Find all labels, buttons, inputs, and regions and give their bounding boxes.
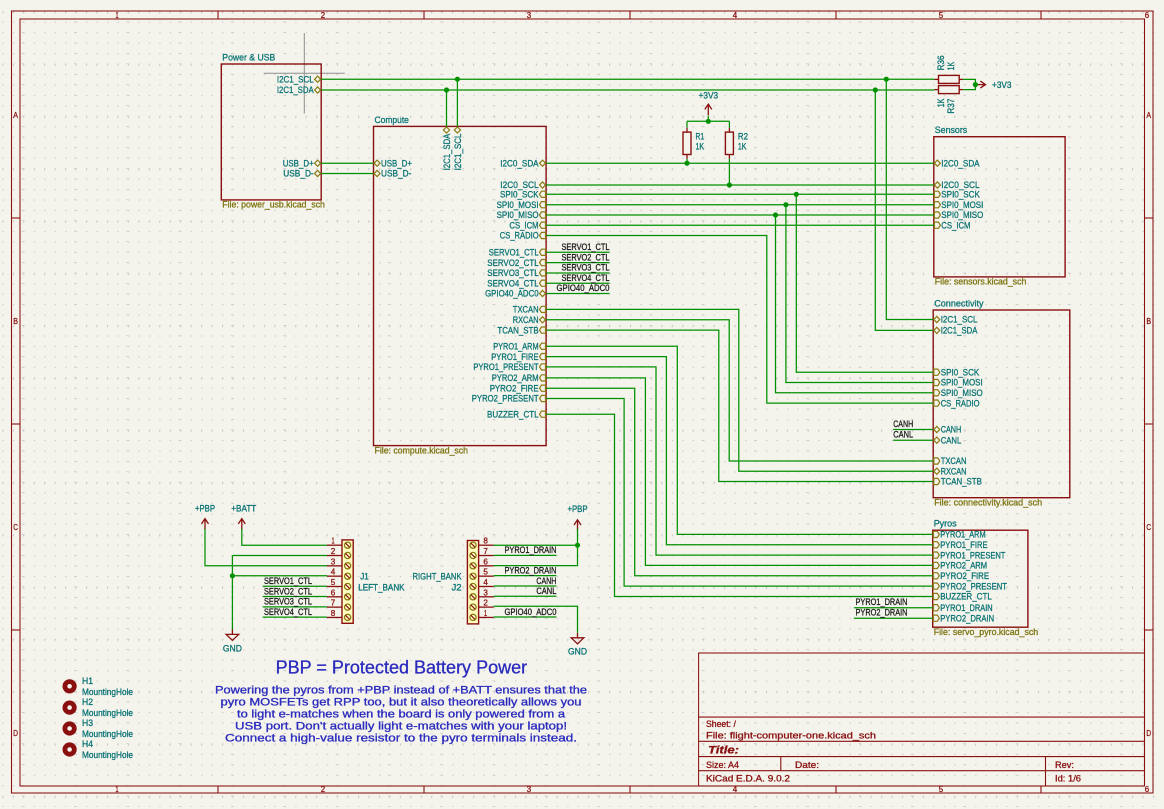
svg-text:PYRO1_FIRE: PYRO1_FIRE — [491, 352, 538, 362]
wire CANH stub at J2 — [494, 585, 557, 587]
svg-text:B: B — [1146, 316, 1151, 326]
sheet pin SPI0_SCK — [500, 190, 546, 200]
sheet pin USB_D- — [283, 169, 320, 179]
wire SPI0_SCK — [546, 193, 934, 195]
svg-text:3: 3 — [527, 10, 532, 20]
svg-text:1: 1 — [331, 536, 334, 546]
svg-text:Title:: Title: — [708, 745, 739, 757]
svg-text:SERVO2_CTL: SERVO2_CTL — [264, 586, 312, 596]
junction GND at J1 pin4 — [230, 573, 235, 578]
wire SERVO3_CTL stub at J1 — [263, 606, 327, 608]
svg-text:CANL: CANL — [941, 435, 962, 445]
ground GND J1 — [226, 630, 239, 641]
junction I2C1_SDA at compute drop — [444, 87, 449, 92]
svg-text:CS_RADIO: CS_RADIO — [500, 231, 539, 241]
svg-text:SPI0_MISO: SPI0_MISO — [941, 210, 983, 220]
sheet Connectivity — [933, 298, 1070, 508]
power symbol PWR03 +PBP — [202, 519, 209, 530]
svg-text:R1: R1 — [696, 132, 705, 142]
junction +3V3 at top bar — [706, 119, 711, 124]
sheet Power & USB — [221, 52, 325, 210]
svg-text:SPI0_MISO: SPI0_MISO — [941, 388, 983, 398]
svg-text:CS_ICM: CS_ICM — [941, 220, 970, 230]
svg-text:USB port. Don't actually light: USB port. Don't actually light e-matches… — [235, 720, 567, 732]
svg-text:Connect a high-value resistor: Connect a high-value resistor to the pyr… — [225, 732, 577, 744]
wire I2C1_SDA bus — [321, 89, 934, 91]
svg-text:SPI0_MOSI: SPI0_MOSI — [941, 378, 983, 388]
svg-text:SPI0_MISO: SPI0_MISO — [497, 210, 539, 220]
svg-text:1K: 1K — [738, 142, 747, 152]
svg-text:CS_RADIO: CS_RADIO — [941, 398, 980, 408]
sheet pin TCAN_STB — [497, 325, 545, 335]
svg-text:R36: R36 — [936, 55, 946, 70]
sheet pin SPI0_SCK — [934, 190, 980, 200]
wire SERVO1_CTL stub — [546, 251, 609, 253]
svg-text:PYRO2_ARM: PYRO2_ARM — [492, 373, 539, 383]
svg-text:2: 2 — [321, 784, 326, 794]
svg-text:PYRO1_DRAIN: PYRO1_DRAIN — [856, 597, 908, 607]
sheet pin SERVO3_CTL — [487, 268, 545, 278]
mounting hole H1 — [65, 676, 133, 697]
mounting hole H4 — [65, 739, 133, 760]
svg-text:J1: J1 — [360, 572, 369, 582]
wire GPIO40_ADC0 stub at J2 — [494, 616, 557, 618]
svg-text:PYRO1_PRESENT: PYRO1_PRESENT — [940, 550, 1005, 560]
wire SERVO2_CTL stub at J1 — [263, 596, 327, 598]
svg-text:1K: 1K — [696, 142, 705, 152]
svg-text:File: power_usb.kicad_sch: File: power_usb.kicad_sch — [222, 200, 325, 210]
wire I2C1_SCL drop to Compute — [456, 79, 458, 126]
svg-text:Compute: Compute — [375, 114, 409, 125]
sheet pin USB_D+ — [374, 158, 412, 168]
svg-text:USB_D-: USB_D- — [283, 169, 313, 179]
sheet pin CANL — [934, 435, 962, 445]
wire I2C0_SDA — [546, 162, 934, 164]
svg-text:CS_ICM: CS_ICM — [509, 220, 538, 230]
sheet pin PYRO1_ARM — [933, 530, 985, 540]
sheet pin I2C1_SCL — [277, 74, 321, 84]
wire PYRO2_FIRE — [546, 388, 933, 576]
wire USB_D+ — [321, 162, 373, 164]
svg-text:to light e-matches when the bo: to light e-matches when the board is onl… — [237, 708, 565, 720]
wire R36 R37 to +3V3 — [963, 79, 975, 89]
wire SPI0_MISO to Connectivity — [776, 215, 934, 393]
svg-text:PYRO2_DRAIN: PYRO2_DRAIN — [856, 608, 908, 618]
svg-text:TXCAN: TXCAN — [513, 305, 539, 315]
sheet pin USB_D- — [374, 169, 411, 179]
svg-text:MountingHole: MountingHole — [82, 729, 133, 739]
wire SERVO4_CTL stub — [546, 282, 609, 284]
sheet pin GPIO40_ADC0 — [485, 289, 545, 299]
wire CANL stub at J2 — [494, 595, 557, 597]
svg-text:SERVO1_CTL: SERVO1_CTL — [489, 248, 539, 258]
svg-text:SPI0_SCK: SPI0_SCK — [500, 190, 539, 200]
svg-text:1: 1 — [484, 608, 487, 618]
wire GPIO40_ADC0 stub — [546, 293, 609, 295]
svg-text:1K: 1K — [946, 61, 956, 70]
svg-text:CANH: CANH — [941, 425, 962, 435]
resistor R37 — [935, 86, 964, 114]
svg-text:SPI0_SCK: SPI0_SCK — [941, 190, 980, 200]
svg-text:6: 6 — [1145, 10, 1150, 20]
sheet pin PYRO1_PRESENT — [933, 550, 1005, 560]
svg-text:PBP = Protected Battery Power: PBP = Protected Battery Power — [276, 657, 528, 678]
svg-text:SERVO2_CTL: SERVO2_CTL — [487, 258, 538, 268]
sheet pin SPI0_MOSI — [497, 200, 546, 210]
svg-text:File: sensors.kicad_sch: File: sensors.kicad_sch — [935, 277, 1027, 287]
svg-text:D: D — [13, 728, 18, 738]
wire SPI0_SCK to Connectivity — [796, 194, 933, 372]
svg-text:RXCAN: RXCAN — [513, 315, 539, 325]
wire I2C1_SCL to Connectivity — [886, 79, 933, 319]
svg-text:B: B — [13, 316, 18, 326]
wire PYRO1_DRAIN stub at J2 — [494, 554, 557, 556]
wire R2 top — [728, 121, 730, 127]
junction I2C0_SCL at R2 — [727, 182, 732, 187]
sheet pin RXCAN — [934, 466, 967, 476]
mounting hole H2 — [65, 697, 133, 718]
svg-text:6: 6 — [1145, 784, 1150, 794]
title block — [699, 653, 1145, 786]
ground GND J2 — [571, 633, 584, 644]
svg-text:3: 3 — [331, 556, 336, 566]
svg-text:7: 7 — [331, 598, 336, 608]
sheet pin SPI0_SCK — [934, 367, 980, 377]
svg-text:PYRO2_DRAIN: PYRO2_DRAIN — [940, 613, 994, 623]
svg-text:5: 5 — [939, 10, 944, 20]
wire GND column J1 — [231, 556, 233, 630]
svg-text:RXCAN: RXCAN — [941, 466, 967, 476]
svg-text:SERVO1_CTL: SERVO1_CTL — [264, 576, 312, 586]
svg-text:CANL: CANL — [893, 430, 913, 440]
connector J1 LEFT_BANK — [327, 536, 353, 624]
svg-text:SERVO4_CTL: SERVO4_CTL — [562, 273, 610, 283]
svg-text:pyro MOSFETs get RPP too, but: pyro MOSFETs get RPP too, but it also th… — [221, 696, 582, 708]
sheet pin I2C1_SDA — [442, 127, 452, 170]
wire GND to J1 pin2 — [232, 555, 327, 557]
svg-text:I2C0_SDA: I2C0_SDA — [500, 158, 539, 168]
power symbol PWR05 +PBP — [574, 520, 581, 531]
sheet pin CS_RADIO — [934, 398, 980, 408]
junction SPI0_SCK drop — [794, 192, 799, 197]
svg-text:Sheet: /: Sheet: / — [706, 719, 736, 729]
svg-text:PYRO1_DRAIN: PYRO1_DRAIN — [505, 545, 557, 555]
svg-text:SPI0_SCK: SPI0_SCK — [941, 367, 980, 377]
wire BUZZER_CTL — [546, 414, 933, 596]
svg-text:CANL: CANL — [536, 586, 556, 596]
wire SERVO2_CTL stub — [546, 262, 609, 264]
power symbol PWR01 +3V3 — [705, 104, 712, 115]
svg-text:File: compute.kicad_sch: File: compute.kicad_sch — [375, 445, 469, 455]
svg-text:Power & USB: Power & USB — [222, 52, 275, 63]
svg-text:I2C0_SDA: I2C0_SDA — [941, 158, 980, 168]
svg-text:GPIO40_ADC0: GPIO40_ADC0 — [557, 283, 610, 293]
sheet pin CS_ICM — [934, 220, 970, 230]
svg-text:USB_D+: USB_D+ — [283, 158, 314, 168]
wire +PBP column J2 — [577, 529, 579, 566]
svg-text:GND: GND — [568, 647, 587, 657]
svg-text:A: A — [13, 110, 18, 120]
sheet Pyros — [933, 518, 1038, 637]
svg-text:+PBP: +PBP — [195, 504, 215, 514]
svg-text:H4: H4 — [82, 739, 93, 749]
svg-text:A: A — [1146, 110, 1151, 120]
svg-text:PYRO2_ARM: PYRO2_ARM — [940, 561, 987, 571]
svg-text:+PBP: +PBP — [568, 504, 588, 514]
svg-text:Powering the pyros from +PBP i: Powering the pyros from +PBP instead of … — [215, 685, 587, 697]
svg-text:I2C1_SCL: I2C1_SCL — [941, 315, 978, 325]
wire CS_ICM — [546, 224, 934, 226]
wire R2 bottom — [728, 159, 730, 185]
wire +BATT to J1 pin1 — [242, 529, 327, 546]
svg-text:MountingHole: MountingHole — [82, 687, 133, 697]
svg-text:H3: H3 — [82, 718, 93, 728]
sheet pin PYRO2_PRESENT — [933, 581, 1007, 591]
wire PYRO1_FIRE — [546, 357, 933, 545]
wire I2C1_SDA drop to Compute — [446, 90, 448, 126]
wire I2C1_SCL bus — [321, 78, 934, 80]
resistor R1 — [683, 128, 705, 159]
svg-text:H2: H2 — [82, 697, 93, 707]
svg-text:I2C1_SDA: I2C1_SDA — [442, 133, 452, 170]
power symbol PWR04 +BATT — [238, 519, 245, 530]
resistor R36 — [935, 55, 964, 83]
wire R1 top — [686, 121, 688, 127]
mounting hole H3 — [65, 718, 133, 739]
sheet pin PYRO2_ARM — [933, 561, 987, 571]
sheet pin SERVO2_CTL — [487, 258, 545, 268]
svg-text:J2: J2 — [452, 582, 462, 592]
sheet pin I2C1_SCL — [934, 315, 978, 325]
wire SERVO1_CTL stub at J1 — [263, 585, 327, 587]
sheet pin CS_ICM — [509, 220, 545, 230]
wire PYRO1_ARM — [546, 346, 933, 534]
wire USB_D- — [321, 173, 373, 175]
svg-text:PYRO1_ARM: PYRO1_ARM — [493, 342, 538, 352]
svg-text:USB_D+: USB_D+ — [381, 158, 412, 168]
svg-text:PYRO1_ARM: PYRO1_ARM — [940, 530, 985, 540]
wire R1-R2 top bar — [687, 120, 729, 122]
svg-text:4: 4 — [483, 577, 488, 587]
svg-text:+3V3: +3V3 — [699, 91, 719, 101]
svg-text:4: 4 — [733, 10, 738, 20]
svg-text:TXCAN: TXCAN — [941, 456, 967, 466]
junction SPI0_MOSI drop — [783, 202, 788, 207]
junction I2C1_SCL at compute drop — [455, 77, 460, 82]
svg-text:Size: A4: Size: A4 — [706, 760, 739, 770]
svg-text:2: 2 — [321, 10, 326, 20]
svg-text:SERVO4_CTL: SERVO4_CTL — [487, 278, 538, 288]
svg-text:1: 1 — [115, 784, 118, 794]
junction SPI0_MISO drop — [773, 212, 778, 217]
svg-text:GPIO40_ADC0: GPIO40_ADC0 — [485, 289, 539, 299]
sheet pin I2C0_SDA — [500, 158, 545, 168]
resistor R2 — [725, 128, 748, 159]
svg-text:GPIO40_ADC0: GPIO40_ADC0 — [505, 607, 557, 617]
svg-text:PYRO2_DRAIN: PYRO2_DRAIN — [505, 565, 557, 575]
sheet pin PYRO2_PRESENT — [472, 394, 546, 404]
svg-text:+3V3: +3V3 — [992, 80, 1012, 90]
wire CS_RADIO — [546, 236, 933, 404]
svg-text:SPI0_MOSI: SPI0_MOSI — [941, 200, 983, 210]
sheet pin PYRO1_FIRE — [491, 352, 545, 362]
wire R1 bottom — [686, 159, 688, 163]
svg-text:+BATT: +BATT — [231, 504, 256, 514]
wire TCAN_STB — [546, 330, 933, 481]
svg-text:KiCad E.D.A. 9.0.2: KiCad E.D.A. 9.0.2 — [706, 774, 790, 784]
svg-text:4: 4 — [331, 567, 336, 577]
svg-text:SERVO1_CTL: SERVO1_CTL — [562, 242, 610, 252]
wire RXCAN to TXCAN pin route — [546, 320, 933, 461]
wire SPI0_MISO — [546, 214, 934, 216]
sheet pin SPI0_MISO — [934, 388, 983, 398]
sheet pin I2C0_SCL — [934, 180, 979, 190]
wire PYRO2_PRESENT — [546, 399, 933, 587]
sheet pin SPI0_MISO — [497, 210, 546, 220]
wire CANH stub at Connectivity — [893, 429, 933, 431]
svg-text:SERVO2_CTL: SERVO2_CTL — [562, 252, 610, 262]
svg-text:MountingHole: MountingHole — [82, 750, 133, 760]
svg-text:PYRO1_FIRE: PYRO1_FIRE — [940, 540, 987, 550]
junction +3V3 tap — [973, 82, 978, 87]
svg-text:1K: 1K — [936, 98, 946, 107]
svg-text:PYRO2_FIRE: PYRO2_FIRE — [940, 571, 989, 581]
sheet pin SPI0_MOSI — [934, 378, 983, 388]
sheet pin PYRO2_ARM — [492, 373, 546, 383]
svg-text:I2C1_SCL: I2C1_SCL — [277, 74, 314, 84]
wire +PBP to J1 pin3 — [205, 529, 327, 566]
wire PYRO2_ARM — [546, 378, 933, 566]
crosshair cursor — [264, 33, 345, 114]
svg-text:8: 8 — [483, 536, 488, 546]
wire +PBP to J2 pin8 — [494, 544, 578, 546]
svg-text:Id: 1/6: Id: 1/6 — [1055, 774, 1081, 784]
svg-text:Pyros: Pyros — [934, 518, 957, 529]
wire I2C1_SDA to Connectivity — [875, 90, 933, 330]
svg-text:6: 6 — [331, 587, 336, 597]
wire GND J2 from pin2 — [494, 606, 578, 633]
sheet pin USB_D+ — [283, 158, 321, 168]
sheet pin TCAN_STB — [934, 477, 982, 487]
svg-text:GND: GND — [223, 643, 242, 653]
svg-text:D: D — [1146, 728, 1151, 738]
wire SERVO3_CTL stub — [546, 272, 609, 274]
svg-text:BUZZER_CTL: BUZZER_CTL — [940, 592, 992, 602]
sheet pin I2C1_SDA — [277, 85, 321, 95]
svg-text:PYRO2_PRESENT: PYRO2_PRESENT — [472, 394, 539, 404]
svg-text:7: 7 — [483, 546, 488, 556]
sheet pin PYRO2_FIRE — [490, 383, 546, 393]
svg-text:PYRO2_PRESENT: PYRO2_PRESENT — [940, 581, 1007, 591]
sheet Sensors — [934, 124, 1065, 287]
sheet pin PYRO1_DRAIN — [933, 603, 992, 613]
svg-text:R37: R37 — [946, 99, 956, 114]
wire GND to J1 pin4 — [232, 575, 327, 577]
svg-text:I2C1_SDA: I2C1_SDA — [941, 326, 978, 336]
sheet pin I2C0_SCL — [500, 180, 545, 190]
sheet pin TXCAN — [513, 305, 546, 315]
svg-text:3: 3 — [527, 784, 532, 794]
junction I2C1_SDA at connectivity drop — [873, 87, 878, 92]
wire PYRO2_DRAIN stub at J2 — [494, 575, 557, 577]
svg-text:SPI0_MOSI: SPI0_MOSI — [497, 200, 539, 210]
sheet pin RXCAN — [513, 315, 546, 325]
svg-text:USB_D-: USB_D- — [381, 169, 411, 179]
sheet pin CS_RADIO — [500, 231, 546, 241]
svg-text:I2C1_SCL: I2C1_SCL — [453, 134, 463, 171]
svg-text:MountingHole: MountingHole — [82, 708, 133, 718]
svg-text:R2: R2 — [738, 132, 748, 142]
wire TXCAN to RXCAN pin route — [546, 309, 933, 471]
wire SERVO4_CTL stub at J1 — [263, 616, 327, 618]
svg-text:6: 6 — [483, 556, 488, 566]
sheet Compute — [374, 114, 547, 456]
svg-text:CANH: CANH — [893, 419, 913, 429]
power symbol PWR02 +3V3 — [976, 81, 986, 88]
svg-text:C: C — [1146, 522, 1151, 532]
wire +PBP to J2 pin6 — [494, 565, 578, 567]
svg-text:2: 2 — [483, 598, 488, 608]
junction +PBP at J2 pin8 — [575, 543, 580, 548]
svg-text:H1: H1 — [82, 676, 93, 686]
svg-text:8: 8 — [331, 608, 336, 618]
wire CANL stub at Connectivity — [893, 439, 933, 441]
svg-text:CANH: CANH — [536, 576, 556, 586]
svg-text:SERVO3_CTL: SERVO3_CTL — [264, 597, 312, 607]
svg-text:TCAN_STB: TCAN_STB — [941, 477, 982, 487]
junction I2C1_SCL at connectivity drop — [884, 77, 889, 82]
svg-text:TCAN_STB: TCAN_STB — [497, 325, 538, 335]
svg-text:SERVO3_CTL: SERVO3_CTL — [487, 268, 538, 278]
svg-text:SERVO4_CTL: SERVO4_CTL — [264, 607, 312, 617]
svg-text:BUZZER_CTL: BUZZER_CTL — [487, 409, 539, 419]
wire SPI0_MOSI to Connectivity — [786, 205, 933, 383]
wire PYRO1_DRAIN stub at Pyros — [854, 607, 933, 609]
wire SPI0_MOSI — [546, 204, 934, 206]
svg-text:C: C — [13, 522, 18, 532]
sheet pin PYRO1_ARM — [493, 342, 545, 352]
sheet pin BUZZER_CTL — [487, 409, 546, 419]
svg-text:PYRO2_FIRE: PYRO2_FIRE — [490, 383, 539, 393]
sheet pin PYRO1_FIRE — [933, 540, 987, 550]
svg-text:Rev:: Rev: — [1055, 760, 1074, 770]
svg-text:5: 5 — [483, 567, 488, 577]
svg-text:SERVO3_CTL: SERVO3_CTL — [562, 263, 610, 273]
sheet pin I2C1_SCL — [453, 127, 463, 170]
sheet pin SERVO1_CTL — [489, 248, 546, 258]
wire +3V3 stem — [707, 116, 709, 122]
svg-text:I2C1_SDA: I2C1_SDA — [277, 85, 314, 95]
svg-text:Date:: Date: — [795, 760, 819, 770]
sheet pin PYRO1_PRESENT — [473, 362, 545, 372]
sheet pin CANH — [934, 425, 962, 435]
svg-text:PYRO1_PRESENT: PYRO1_PRESENT — [473, 362, 538, 372]
sheet pin PYRO2_FIRE — [933, 571, 989, 581]
sheet pin SPI0_MOSI — [934, 200, 983, 210]
sheet pin SERVO4_CTL — [487, 278, 545, 288]
svg-text:5: 5 — [331, 577, 336, 587]
svg-text:PYRO1_DRAIN: PYRO1_DRAIN — [940, 603, 993, 613]
svg-text:Sensors: Sensors — [935, 124, 968, 135]
sheet pin TXCAN — [934, 456, 967, 466]
note paragraph — [215, 685, 587, 745]
sheet pin SPI0_MISO — [934, 210, 983, 220]
wire I2C0_SCL — [546, 184, 934, 186]
connector J2 RIGHT_BANK — [467, 536, 493, 624]
svg-text:Connectivity: Connectivity — [934, 298, 984, 309]
wire PYRO2_DRAIN stub at Pyros — [854, 617, 933, 619]
svg-text:File: servo_pyro.kicad_sch: File: servo_pyro.kicad_sch — [934, 627, 1038, 637]
